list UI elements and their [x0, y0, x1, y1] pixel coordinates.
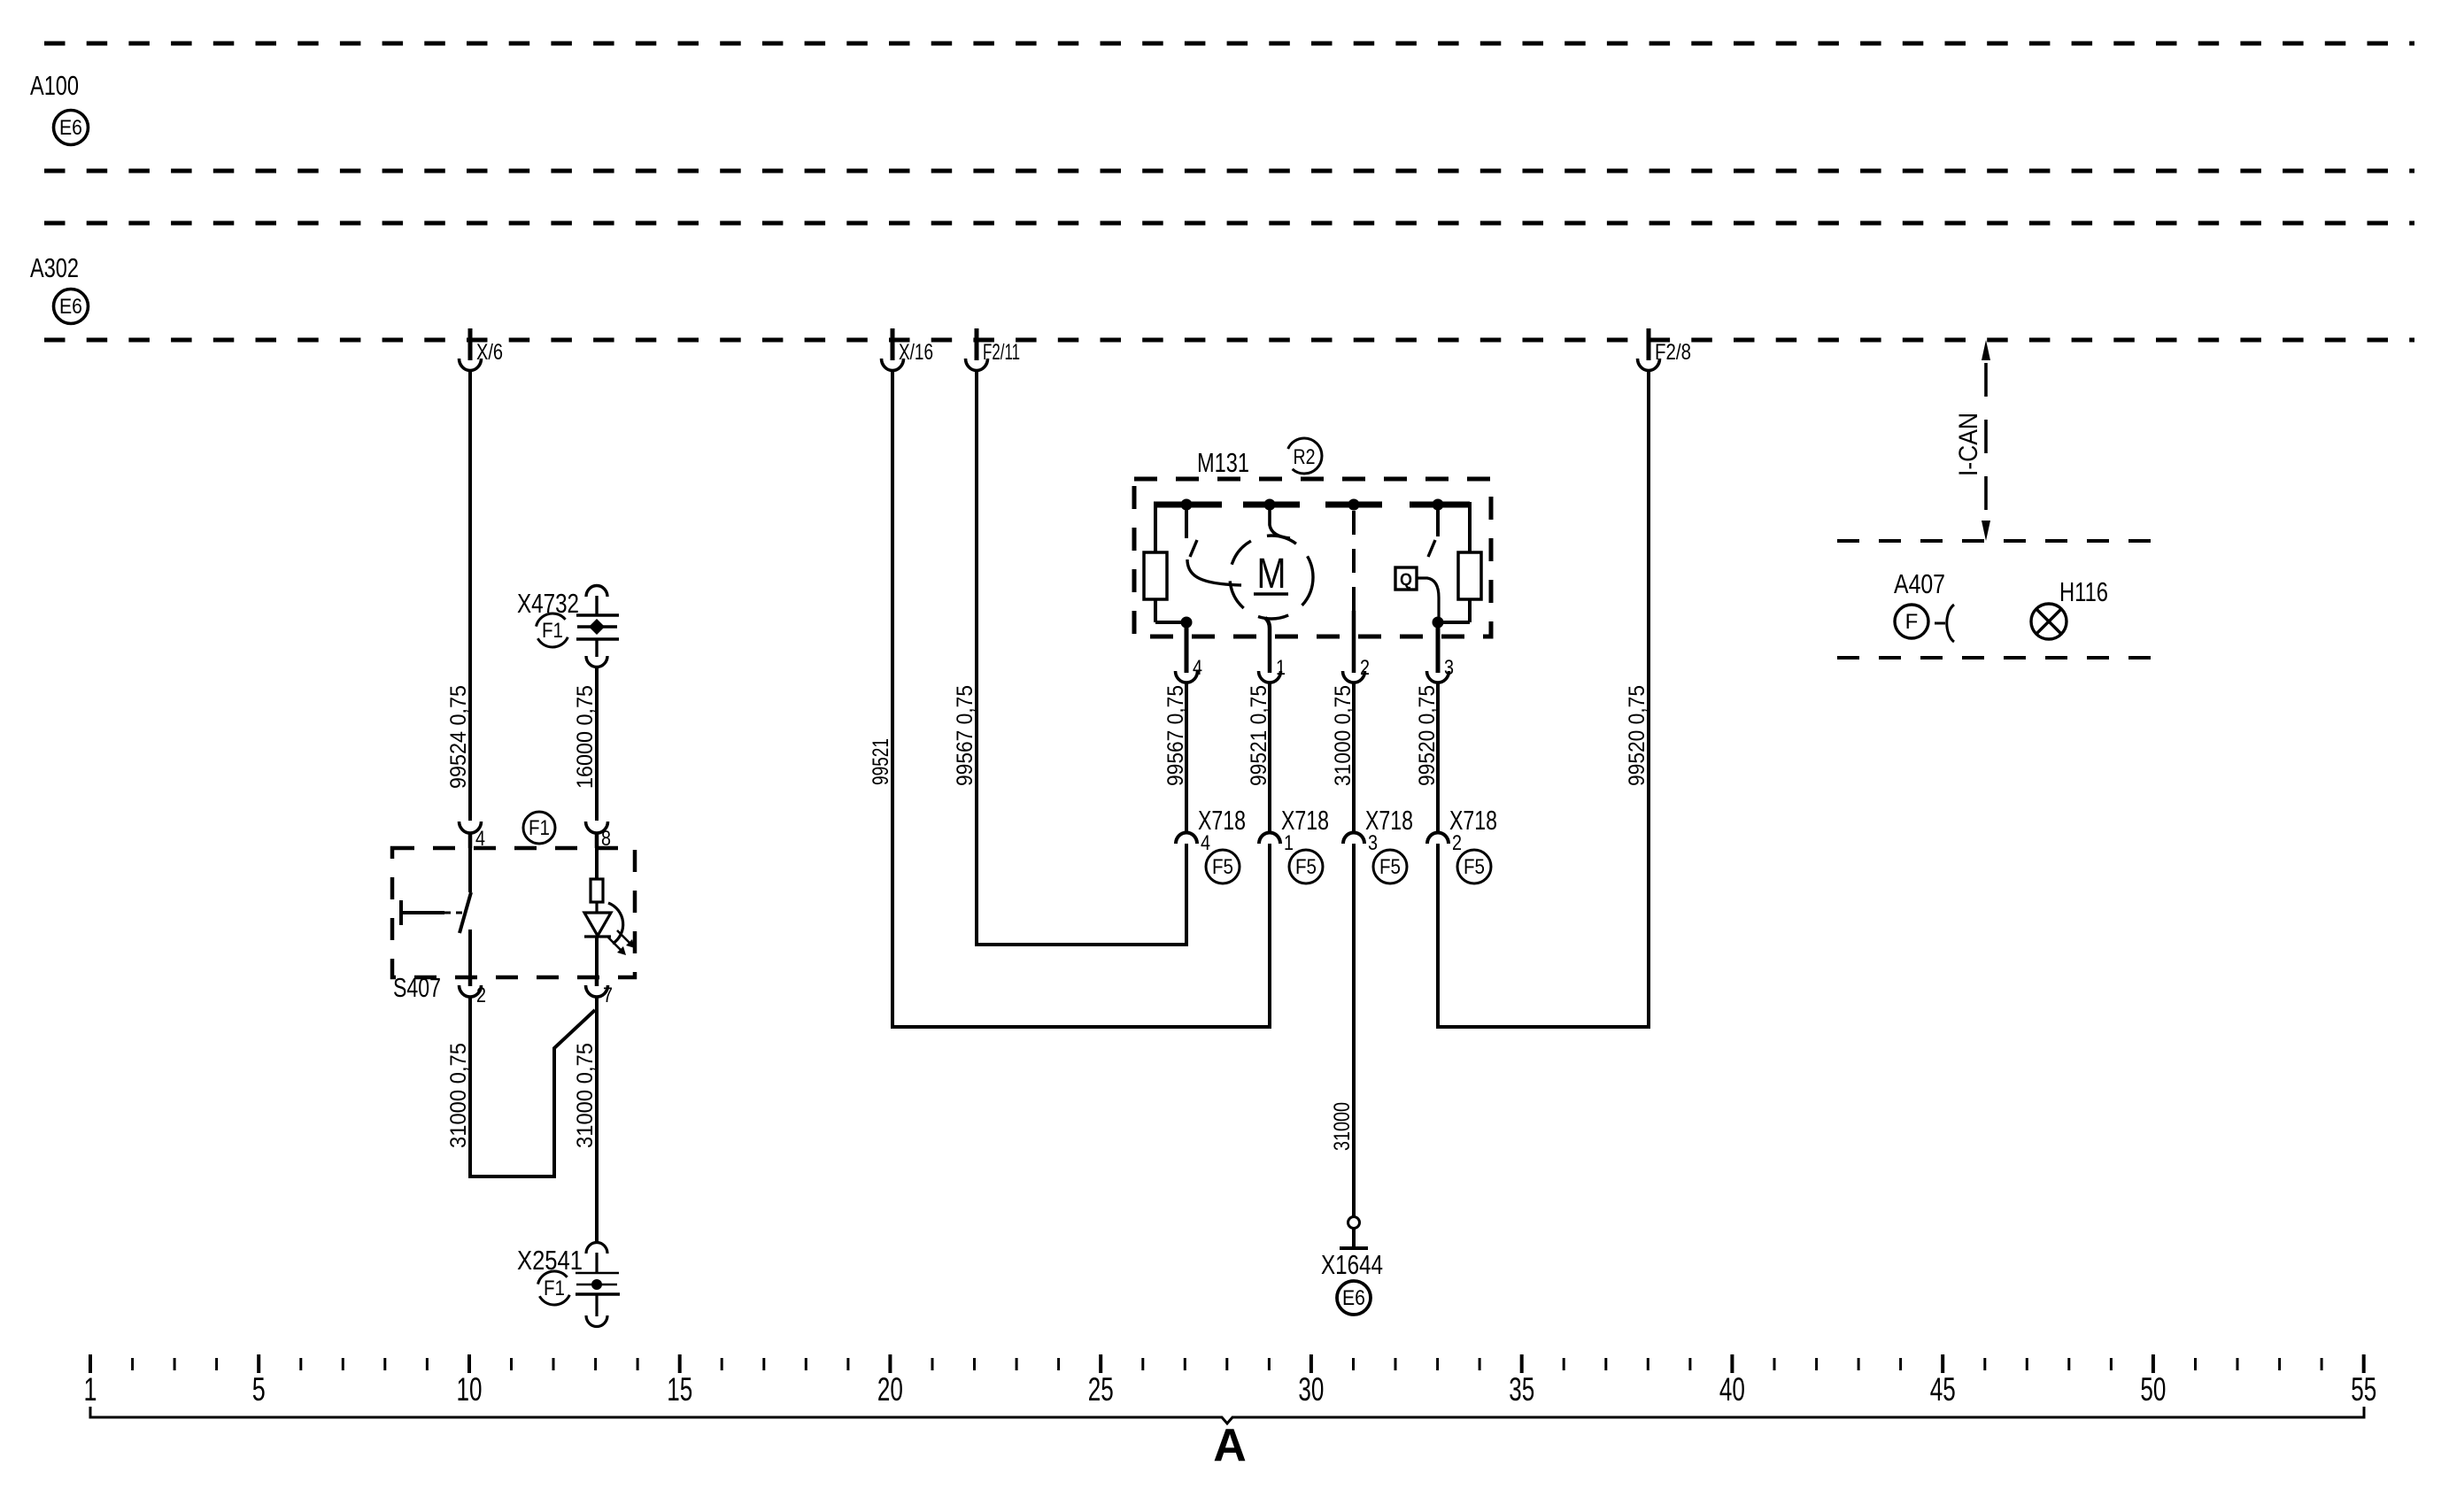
svg-text:E6: E6	[1342, 1286, 1365, 1310]
svg-text:31000 0,75: 31000 0,75	[446, 1043, 471, 1148]
wire 31000 (M131 to X718) at x=1529	[1352, 683, 1356, 833]
svg-text:2: 2	[1452, 831, 1462, 855]
badge R2	[1286, 438, 1322, 474]
badge F1 (X2541)	[537, 1271, 571, 1305]
svg-text:99567 0,75: 99567 0,75	[1163, 685, 1188, 786]
badge E6 (X1644)	[1337, 1281, 1371, 1315]
S407 pin 2	[460, 977, 482, 997]
badge E6 (A100)	[54, 111, 89, 145]
S407 pin 8	[586, 822, 608, 848]
svg-text:1: 1	[1276, 656, 1286, 680]
svg-text:F1: F1	[544, 1277, 565, 1300]
badge F5 (X718 2)	[1457, 850, 1491, 883]
motor M131 dashed box	[1134, 479, 1491, 636]
connector F2/11 on A302	[966, 328, 988, 371]
wire 31000 from S407 pin 2	[470, 997, 595, 1176]
ruler numbers	[84, 1371, 2377, 1408]
M131 right resistor branch	[1438, 502, 1481, 622]
ruler scale ticks	[90, 1354, 2364, 1373]
svg-text:2: 2	[1360, 656, 1370, 680]
M131 pin 2	[1343, 671, 1365, 683]
svg-text:I-CAN: I-CAN	[1954, 413, 1983, 476]
badge F5 (X718 4)	[1206, 850, 1240, 883]
wire 99520 (F2/8 to X718 pin2)	[1438, 371, 1649, 1027]
wire 99567 (M131 to X718) at x=1340	[1185, 683, 1188, 833]
svg-text:31000: 31000	[1330, 1102, 1355, 1151]
connector X718 pin 1	[1259, 833, 1280, 845]
svg-text:X/16: X/16	[899, 340, 933, 365]
I-CAN bus link arrows	[1982, 340, 1990, 541]
svg-text:M: M	[1257, 551, 1286, 598]
svg-text:30: 30	[1298, 1371, 1324, 1408]
svg-text:1: 1	[1284, 831, 1294, 855]
svg-text:35: 35	[1509, 1371, 1534, 1408]
M131 motor circle with M	[1230, 536, 1313, 619]
svg-text:A: A	[1213, 1420, 1247, 1471]
svg-text:99521: 99521	[869, 738, 893, 785]
connector X718 pin 3	[1343, 833, 1364, 845]
badge F (A407)	[1895, 605, 1928, 638]
svg-text:50: 50	[2140, 1371, 2166, 1408]
svg-text:4: 4	[1193, 656, 1202, 680]
svg-text:3: 3	[1368, 831, 1378, 855]
connector X/16 on A302	[882, 328, 904, 371]
svg-text:F5: F5	[1295, 855, 1317, 879]
svg-text:A302: A302	[30, 252, 79, 283]
badge F1 (S407)	[523, 812, 555, 844]
svg-text:F5: F5	[1464, 855, 1485, 879]
svg-text:99520 0,75: 99520 0,75	[1415, 685, 1440, 786]
section brace A	[90, 1407, 2364, 1423]
svg-text:99521 0,75: 99521 0,75	[1247, 685, 1271, 786]
svg-text:F5: F5	[1379, 855, 1401, 879]
connector X718 pin 2	[1427, 833, 1449, 845]
svg-text:F5: F5	[1212, 855, 1233, 879]
badge F5 (X718 3)	[1373, 850, 1407, 883]
connector X2541	[576, 1243, 620, 1327]
M131 pin 4	[1176, 628, 1198, 683]
M131 pin 3	[1427, 628, 1449, 683]
M131 internal supply bus segments	[1154, 502, 1470, 508]
S407 LED with series resistor	[584, 848, 635, 977]
svg-text:8: 8	[601, 827, 611, 851]
svg-text:3: 3	[1444, 656, 1454, 680]
wire 99524 (X/6 to S407 pin 4)	[468, 371, 472, 821]
badge F5 (X718 1)	[1289, 850, 1323, 883]
wire 31000 from S407 pin 7 to X2541	[595, 997, 599, 1242]
M131 junction dots	[1181, 499, 1444, 629]
svg-text:E6: E6	[59, 116, 82, 140]
svg-text:F2/11: F2/11	[983, 340, 1020, 365]
connector X4732	[576, 586, 619, 667]
svg-text:X/6: X/6	[476, 340, 503, 365]
svg-text:F: F	[1905, 610, 1919, 634]
svg-text:F1: F1	[529, 816, 550, 840]
svg-text:25: 25	[1088, 1371, 1114, 1408]
svg-text:99524 0,75: 99524 0,75	[446, 685, 471, 789]
svg-text:99567 0,75: 99567 0,75	[953, 685, 977, 786]
S407 pin 7	[586, 977, 608, 997]
M131 left resistor branch	[1144, 502, 1186, 622]
svg-text:4: 4	[1201, 831, 1210, 855]
svg-text:E6: E6	[59, 295, 82, 319]
M131 motor top lead	[1270, 510, 1290, 538]
module A100 dashed box edges	[44, 43, 2414, 171]
svg-text:31000 0,75: 31000 0,75	[1331, 685, 1356, 786]
wire 16000 (X4732 to S407 pin 8)	[595, 667, 599, 821]
svg-text:S407: S407	[393, 972, 441, 1003]
svg-text:R2: R2	[1294, 445, 1316, 469]
connector X/6 on A302	[460, 328, 482, 371]
wire 99521 (X/16 to X718 pin1)	[892, 371, 1270, 1027]
wire 99521 (M131 to X718) at x=1434	[1268, 683, 1271, 833]
ground point X1644	[1340, 1217, 1368, 1249]
svg-text:F2/8: F2/8	[1655, 340, 1691, 365]
svg-text:2: 2	[476, 984, 486, 1007]
svg-text:F1: F1	[542, 619, 563, 643]
switch S407 dashed box	[392, 848, 635, 977]
svg-text:A407: A407	[1894, 568, 1945, 599]
S407 pin 4	[460, 822, 482, 848]
svg-text:45: 45	[1930, 1371, 1956, 1408]
M131 motor bottom lead (pin 1)	[1265, 618, 1270, 673]
wire 99520 (M131 to X718) at x=1624	[1436, 683, 1440, 833]
M131 left brush lead	[1186, 508, 1241, 585]
wire 99567 (F2/11 to X718 pin4)	[977, 371, 1186, 945]
M131 right brush lead	[1428, 508, 1438, 557]
svg-text:31000 0,75: 31000 0,75	[573, 1043, 598, 1148]
svg-text:10: 10	[457, 1371, 483, 1408]
svg-text:99520 0,75: 99520 0,75	[1625, 685, 1649, 786]
svg-text:M131: M131	[1197, 447, 1249, 478]
wire 31000 (X718 pin3 to X1644)	[1352, 844, 1356, 1217]
svg-text:H116: H116	[2059, 576, 2108, 607]
svg-text:Q: Q	[1400, 571, 1412, 590]
svg-text:1: 1	[84, 1371, 97, 1408]
S407 switch contact	[460, 848, 471, 977]
lamp H116 symbol	[2031, 604, 2067, 639]
svg-text:5: 5	[252, 1371, 266, 1408]
svg-text:A100: A100	[30, 70, 79, 101]
svg-text:4: 4	[475, 827, 485, 851]
svg-text:15: 15	[667, 1371, 692, 1408]
svg-text:16000 0,75: 16000 0,75	[573, 685, 598, 789]
badge F1 (X4732)	[536, 613, 569, 647]
module A302 dashed box edges	[44, 223, 2414, 340]
svg-text:55: 55	[2351, 1371, 2376, 1408]
S407 actuator	[401, 900, 464, 925]
M131 pin 1	[1259, 671, 1281, 683]
connector F2/8 on A302	[1638, 328, 1660, 371]
badge E6 (A302)	[54, 289, 89, 324]
svg-text:7: 7	[603, 984, 613, 1007]
connector X718 pin 4	[1176, 833, 1197, 845]
A407 connector bracket symbol	[1935, 605, 1954, 642]
svg-text:X1644: X1644	[1321, 1249, 1383, 1280]
M131 dashed branch (pin 2)	[1352, 511, 1356, 673]
svg-text:40: 40	[1719, 1371, 1745, 1408]
dashed box around A407 and H116	[1837, 541, 2154, 658]
M131 sensor Q	[1395, 567, 1439, 618]
svg-text:20: 20	[877, 1371, 903, 1408]
